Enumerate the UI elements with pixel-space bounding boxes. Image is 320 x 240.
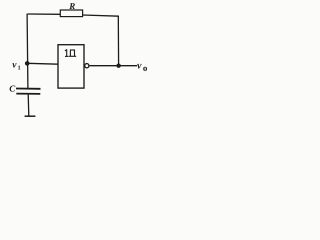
svg-text:R: R: [68, 1, 75, 11]
svg-text:o: o: [143, 63, 148, 73]
svg-text:v: v: [137, 60, 142, 71]
svg-text:C: C: [9, 84, 16, 94]
svg-text:1: 1: [18, 65, 21, 71]
